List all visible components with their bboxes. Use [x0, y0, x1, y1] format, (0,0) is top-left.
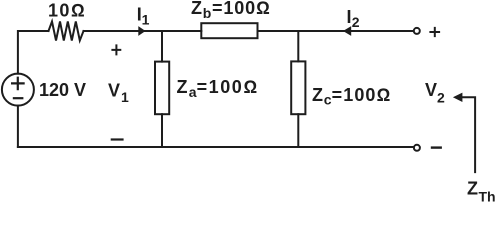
wire: Za branch bottom [161, 114, 163, 147]
svg-text:=100Ω: =100Ω [212, 0, 271, 18]
resistor R1 10Ω zigzag [49, 22, 84, 41]
svg-text:1: 1 [121, 89, 129, 105]
svg-text:a: a [189, 84, 197, 100]
top-right open terminal [414, 28, 420, 34]
wire: resistor to node A (Za top junction) [84, 30, 163, 32]
ZTh arrowhead [453, 93, 463, 102]
svg-text:Z: Z [191, 0, 202, 18]
svg-text:10Ω: 10Ω [48, 1, 86, 21]
impedance Zc box [291, 61, 305, 114]
voltage source V 120V circle [2, 74, 34, 106]
wire: Zc branch bottom [297, 114, 299, 147]
svg-text:1: 1 [142, 12, 150, 28]
wire: node B to top-right open terminal [298, 30, 413, 32]
svg-text:c: c [324, 92, 332, 108]
wire: source bottom to bottom rail [17, 106, 19, 147]
svg-text:=100Ω: =100Ω [197, 77, 259, 97]
svg-text:Th: Th [479, 189, 496, 203]
impedance Za box [155, 62, 169, 115]
wire: Zb right terminal to node B (Zc top junction) [258, 30, 299, 32]
plus sign of V1 polarity [112, 45, 120, 54]
voltage source minus sign [14, 97, 22, 99]
minus sign of V1 polarity [112, 138, 123, 140]
svg-text:2: 2 [352, 14, 360, 30]
plus sign at top-right terminal [430, 28, 439, 36]
minus sign at bottom-right terminal [432, 146, 441, 148]
wire: source top to top-left corner to resistor [18, 31, 49, 74]
svg-text:=100Ω: =100Ω [332, 85, 392, 105]
svg-text:I: I [347, 7, 352, 27]
svg-text:V: V [425, 80, 437, 100]
svg-text:120 V: 120 V [39, 80, 86, 100]
wire: Zc branch top [297, 31, 299, 61]
svg-text:Z: Z [177, 77, 188, 97]
I2 current arrowhead [343, 26, 351, 36]
svg-text:Z: Z [467, 178, 478, 198]
svg-text:Z: Z [312, 85, 323, 105]
wire: node A to Zb left terminal [162, 30, 201, 32]
voltage source plus sign [12, 78, 24, 89]
impedance Zb box [201, 23, 257, 38]
svg-text:V: V [108, 80, 120, 100]
bottom-right open terminal [414, 145, 420, 151]
wire: Za branch top [161, 31, 163, 62]
I1 current arrowhead [138, 26, 145, 36]
ZTh arrow line [460, 97, 475, 172]
svg-text:2: 2 [437, 90, 445, 106]
svg-text:b: b [203, 5, 212, 21]
wire: bottom rail [18, 146, 413, 148]
